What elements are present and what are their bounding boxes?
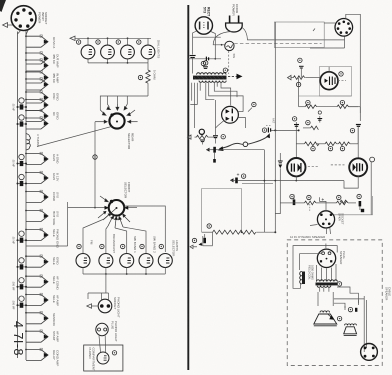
mechanical link dashes from switch — [228, 51, 230, 74]
flexible shielded lead with marker — [218, 133, 270, 151]
dial lamp bottom bus wire — [88, 59, 148, 64]
tick mark on box — [313, 29, 315, 32]
label socket phono light — [113, 297, 120, 318]
speaker cable connector J2 — [335, 19, 353, 37]
connector chevron 8 — [25, 190, 48, 202]
callout 37 — [311, 146, 315, 150]
output socket J3 — [317, 197, 334, 234]
callout 15 dial lamp I1 — [76, 40, 80, 44]
callout 3 filament cap — [201, 61, 205, 65]
dial lamp I1 — [81, 45, 95, 59]
callout 33 — [350, 128, 354, 132]
horizontal wire into S2 — [68, 207, 109, 209]
wire mid cap to output tubes cathode bus — [238, 180, 344, 184]
output tube V4 — [287, 158, 305, 176]
callout 16 dial lamp I2 — [96, 40, 100, 44]
V4 cathode lead — [295, 176, 297, 180]
label speaker cable — [385, 287, 392, 300]
callout 41 — [307, 195, 311, 199]
dial lamp top bus wire — [75, 37, 151, 39]
callout 10 near V2 — [252, 102, 256, 106]
main left supply rail A — [17, 32, 19, 359]
selector rear rotary switch S1 — [109, 113, 124, 128]
callout 25 lamp I7 — [121, 244, 125, 248]
connector chevron 10 — [25, 228, 48, 240]
callout 24 lamp I6 — [100, 244, 104, 248]
rail bypass capacitor C1 — [17, 98, 28, 110]
callout 36 dark ring — [199, 129, 204, 134]
wire T2 to tweeter — [334, 287, 364, 308]
phono compartment box — [84, 345, 123, 371]
callout 8 plate resistor — [340, 100, 344, 104]
on-off switch S3 — [225, 41, 234, 50]
label dial lights — [157, 40, 161, 58]
vertical cap and callout 32 — [317, 116, 322, 123]
arrow into S2 from feeder — [98, 211, 107, 218]
cap block left of bleeder — [199, 232, 213, 246]
wires to speaker plug — [345, 296, 367, 352]
selector lamp I6 — [99, 254, 113, 268]
power cord plug P1 — [226, 16, 243, 32]
selector lamp I5 — [76, 254, 90, 268]
callout 38 — [328, 146, 332, 150]
speaker frame — [318, 292, 333, 306]
right rail wires — [349, 107, 361, 121]
wires to socket — [275, 168, 318, 225]
coupling cap above V4 — [278, 153, 283, 168]
rail bypass capacitor C6 — [17, 258, 28, 270]
connector chevron 14 — [25, 312, 48, 324]
audio section box — [202, 189, 242, 233]
output transformer T2 — [316, 280, 338, 287]
callout 4 above resistor — [298, 58, 302, 62]
V1 plate lead and filter cap — [190, 31, 197, 74]
cap below callout 36 — [200, 140, 205, 145]
wires socket top — [293, 244, 337, 289]
dial lamp I3 — [121, 45, 135, 59]
output tube V5 — [349, 158, 367, 176]
bleeder resistor R20 — [202, 230, 277, 234]
coil L1 on rail — [26, 134, 40, 151]
callout 13 mid cap — [241, 174, 245, 178]
grid resistor left of V3 — [288, 75, 321, 79]
connector chevron 2 (double) — [25, 52, 48, 64]
grid terminal circle right — [370, 157, 375, 215]
connector chevron 12 — [25, 275, 48, 287]
callout 18 dial lamp I4 — [137, 40, 141, 44]
switch S1 contact arrows — [95, 104, 138, 123]
wire S1 to rail coil — [37, 127, 112, 147]
field coil winding — [300, 272, 305, 285]
dial lamp leads top — [88, 38, 148, 45]
speaker 1 cone — [314, 314, 337, 326]
interconnect box outline — [274, 22, 324, 48]
edition number 4 71-8 — [11, 321, 25, 356]
rail bypass capacitor C7 — [17, 278, 28, 290]
resistor R1 5 ohm — [146, 63, 157, 96]
connector chevron 9 — [25, 209, 48, 221]
chassis divider border line — [187, 5, 189, 370]
label power input socket — [38, 12, 49, 25]
callout 27 lamp I9 — [159, 244, 163, 248]
label switch — [232, 54, 236, 59]
caps above T1 — [203, 67, 208, 69]
dark cap right tube grid — [356, 125, 361, 159]
lamp bottom bus — [83, 268, 165, 275]
label V1 tube type — [203, 7, 211, 17]
V1 lower crossbar wire — [193, 36, 221, 38]
antenna cap at lead end — [266, 126, 300, 133]
phono compartment lamp — [97, 352, 109, 364]
wire to connector lower — [310, 37, 345, 49]
callout 23 lamp I5 — [77, 244, 81, 248]
label selector front — [124, 182, 131, 199]
junction dots lamp bus — [105, 273, 147, 275]
wires S2 fan to lamps — [83, 219, 146, 253]
callout 19 resistor R1 — [138, 75, 142, 79]
V1 right lead — [211, 32, 216, 60]
callout 11 on flexible lead — [243, 142, 248, 147]
wires plug to phono lamp — [99, 336, 106, 353]
arrow into speaker 1 — [327, 314, 335, 320]
electrolytic cap lower — [206, 147, 217, 163]
chassis arrow right of divider — [190, 245, 197, 249]
audio box lower right corner — [334, 196, 372, 215]
long B+ vertical wire — [274, 22, 276, 232]
wire plug to switch — [213, 32, 232, 46]
label selector rear — [127, 133, 134, 150]
wire V3 box bottom — [299, 78, 352, 107]
speaker compartment dashed box — [287, 240, 382, 366]
callout 12 at lead end — [262, 128, 266, 132]
connector chevron 11 — [25, 255, 48, 267]
V2 right leads — [238, 108, 252, 128]
coupling cap on V2 cathode line — [213, 100, 224, 144]
arrow chassis at phono socket — [87, 304, 98, 308]
phono light plug — [96, 323, 108, 335]
connector labels column — [52, 37, 59, 366]
callout 26 lamp I8 — [140, 244, 144, 248]
tweeter voice coil — [345, 324, 357, 326]
AF coupling network top left of output tubes — [294, 122, 299, 159]
callout 31 — [306, 120, 310, 124]
connector lead to right rail — [346, 14, 361, 113]
callout 2 cap above T1 — [204, 61, 208, 65]
connector chevron 7 — [25, 171, 48, 183]
socket bottom leads — [317, 264, 337, 281]
ground return box wire — [26, 202, 68, 246]
connector chevron 1 — [25, 35, 48, 47]
callout 5 near V3 — [339, 72, 343, 76]
wire S1 left to vertical feeder — [94, 122, 96, 209]
dial lamp I2 — [101, 45, 115, 59]
selector front rotary switch S2 — [103, 200, 137, 220]
speaker socket J4 — [317, 249, 335, 267]
rail bypass capacitor C8 — [17, 296, 28, 308]
rail bypass capacitor C2 — [17, 115, 28, 127]
label plug phono light — [111, 321, 118, 342]
connector chevron 5 (double) — [25, 109, 48, 121]
label power cord — [232, 4, 240, 16]
connector chevron 3 (double) — [25, 71, 48, 83]
cathode bias row under output tubes — [293, 195, 356, 212]
label output socket — [338, 213, 345, 225]
label antenna lead — [272, 118, 276, 124]
switch S2 contact arrows — [100, 196, 130, 228]
callout 22 on feeder wire — [93, 155, 97, 159]
callout 29 right of divider — [192, 238, 196, 242]
connector chevron 13 — [25, 293, 48, 305]
callout 34 right of cap — [221, 135, 225, 139]
label top of speaker box — [290, 235, 325, 239]
filament return wire — [188, 57, 221, 61]
cap at V3 grid — [299, 66, 304, 77]
power transformer T1 — [193, 73, 227, 83]
callout 40 — [290, 194, 294, 198]
grid resistor row between output tubes — [296, 142, 358, 146]
wire lamp bus down to phono lamp socket — [88, 274, 109, 300]
callout 6 below resistor — [296, 82, 300, 86]
label speaker socket — [339, 251, 346, 264]
speaker cable plug J5 — [361, 344, 378, 361]
V5 top lead — [357, 128, 359, 144]
grid leak resistor diag — [303, 126, 318, 130]
selector lamp I9 — [158, 254, 172, 268]
T1 secondary leads — [190, 83, 243, 128]
selector lamp I8 — [139, 254, 153, 268]
voice coil bumps speaker 1 — [320, 311, 330, 313]
scan blotch top-left corner — [0, 0, 6, 12]
main left supply rail B — [25, 31, 27, 360]
callout 28 phono lamp — [112, 351, 116, 355]
wire S2 right to lamp 5 — [125, 206, 166, 252]
long wire plug to speaker connector — [242, 28, 344, 40]
callout 14 bleeder — [207, 224, 211, 228]
connector chevron 4 (double) — [25, 91, 48, 103]
dashed arrow from T1 — [228, 74, 243, 80]
tweeter cone — [344, 327, 357, 336]
label field coil — [308, 265, 315, 280]
callout 30 — [292, 117, 296, 121]
callout 42 — [337, 195, 341, 199]
rail bypass capacitor C5 — [17, 231, 28, 243]
detector tube V2 — [222, 106, 239, 123]
tweeter series cap — [355, 308, 357, 312]
power input socket J1 — [11, 6, 36, 31]
arrow to chassis left of socket — [3, 23, 13, 28]
IF amp tube V3 — [320, 67, 352, 97]
callout 45 speaker 1 — [337, 316, 341, 320]
selector lamp I7 — [120, 254, 134, 268]
switch S1 feed bus from resistor — [100, 96, 148, 110]
callout 44 output transformer — [337, 282, 341, 286]
mid electrolytic cap with arrow — [230, 173, 239, 183]
cap value labels — [12, 103, 16, 310]
callout 46 tweeter cap — [348, 307, 352, 311]
dashed plate wires — [308, 165, 345, 167]
T2 secondary leads down — [320, 288, 329, 292]
cathode resistor right — [340, 200, 346, 204]
screen resistor row under V3 — [299, 105, 358, 109]
callout 1 transformer T1 — [223, 68, 227, 72]
V3 plate lead dashes — [338, 80, 346, 82]
rail stubs from socket — [18, 30, 29, 36]
connector chevron 15 — [25, 330, 48, 342]
rail bypass capacitor C4 — [17, 174, 28, 186]
dashed wire from switch — [234, 43, 321, 45]
grid resistor group left of V2 — [188, 135, 215, 139]
connector left lead — [324, 22, 335, 24]
callout 17 dial lamp I3 — [116, 40, 120, 44]
screen bypass terminal — [318, 111, 321, 114]
dial lamp I4 — [141, 45, 155, 59]
phono light socket — [98, 299, 112, 313]
rail bypass capacitor C3 — [17, 154, 28, 166]
lamp band labels — [90, 234, 179, 257]
callout 43 and cap right — [357, 194, 361, 198]
connector chevron 16 — [25, 348, 48, 360]
chassis arrow left of dial bus — [70, 36, 75, 40]
paper grain overlay — [0, 0, 1, 1]
callout 7 screen resistor — [306, 100, 310, 104]
V5 cathode lead — [344, 176, 358, 188]
wire V2 cathode to bleeder vertical — [217, 150, 265, 233]
rectifier tube V1 — [195, 17, 212, 34]
callout 39 — [340, 146, 344, 150]
connector chevron 6 — [25, 152, 48, 164]
